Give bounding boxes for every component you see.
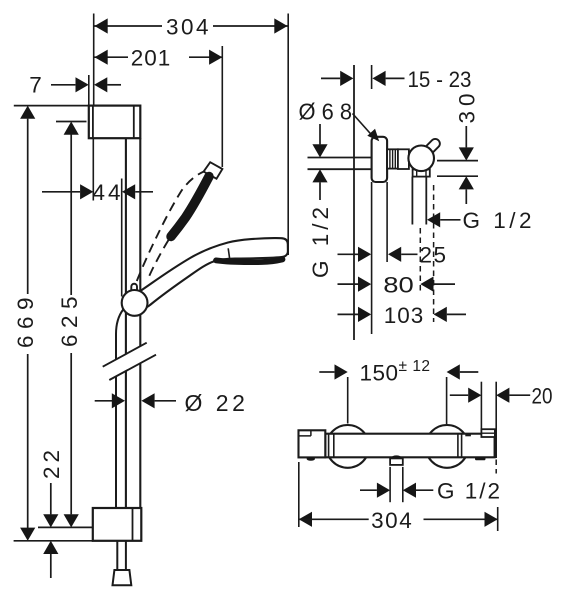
hand shower select button tick <box>228 248 229 258</box>
dimension 201 <box>95 56 223 58</box>
dimension 304 (top) <box>95 25 288 27</box>
escutcheon back extension line <box>386 182 388 262</box>
dimension 625 <box>56 121 87 123</box>
wall reference line <box>353 65 355 340</box>
dimension 15-23 <box>321 77 340 79</box>
svg-text:Ø 22: Ø 22 <box>185 390 249 416</box>
small tick detail <box>465 434 471 436</box>
hand shower phantom upper dashed edge <box>137 172 204 281</box>
break mark diagonal 1 <box>103 343 147 367</box>
svg-text:669: 669 <box>13 291 38 348</box>
svg-text:G 1/2: G 1/2 <box>437 479 502 504</box>
hand shower phantom lower dashed edge <box>147 240 168 281</box>
slide bar left edge <box>125 138 127 508</box>
hand shower solid body <box>137 238 288 308</box>
svg-text:80: 80 <box>383 273 414 298</box>
svg-text:30: 30 <box>454 88 479 123</box>
dimension G1/2 (right, hose outlet) <box>427 212 440 227</box>
slide bar right edge <box>139 138 141 508</box>
hose nipple <box>412 177 426 225</box>
valve body block <box>398 149 409 169</box>
slider knob <box>122 290 148 316</box>
hose below bracket left edge <box>116 541 118 570</box>
svg-text:22: 22 <box>39 446 64 479</box>
extension line left of 304/201 <box>93 14 95 105</box>
left union cap <box>299 430 326 457</box>
break mark diagonal 2 <box>109 355 156 380</box>
dimension 304 (bottom) <box>298 462 300 527</box>
hex nut flats <box>417 169 426 176</box>
left screw blob <box>307 457 315 461</box>
extension line right of 304 <box>287 14 289 256</box>
dashed centre line (80) <box>419 228 421 292</box>
knurled section <box>387 149 398 168</box>
outlet collar blob <box>392 455 402 459</box>
svg-text:G 1/2: G 1/2 <box>308 203 333 278</box>
holder ball <box>408 146 434 172</box>
svg-text:20: 20 <box>532 384 553 409</box>
svg-text:G 1/2: G 1/2 <box>463 208 536 233</box>
supply pipe bottom line <box>308 168 372 170</box>
escutcheon (side view) <box>372 137 388 182</box>
outlet hex nut <box>413 169 430 176</box>
dimension 44 <box>42 191 80 193</box>
escutcheon face extension line (bottom) <box>371 182 373 334</box>
dimension 25 <box>338 253 359 255</box>
hand shower phantom spray face (dark band) <box>171 177 209 237</box>
left cap step detail <box>299 430 311 436</box>
right step blob <box>475 457 486 460</box>
svg-text:7: 7 <box>29 73 42 98</box>
bottom bracket <box>93 508 142 541</box>
svg-text:625: 625 <box>57 290 82 347</box>
outlet nut <box>390 458 403 465</box>
hose below bracket right edge <box>125 541 127 570</box>
svg-text:103: 103 <box>384 303 425 328</box>
svg-text:44: 44 <box>92 180 123 205</box>
dimension G1/2 (outlet) <box>389 467 391 502</box>
knurl ribs <box>390 149 395 168</box>
svg-text:304: 304 <box>166 15 211 40</box>
dimension 20 <box>480 382 482 429</box>
bottom bracket inner line <box>132 508 134 541</box>
dimension 669 <box>14 105 89 107</box>
hand shower spray face (dark band) <box>216 259 283 262</box>
dimension 30 <box>437 160 478 162</box>
escutcheon face extension line (top) <box>371 65 373 89</box>
extension line bracket left edge (7 dim) <box>88 75 90 105</box>
right joint lines <box>458 434 462 458</box>
supply pipe top line <box>308 157 372 159</box>
dimension 150 +/-12 <box>347 377 349 424</box>
extension line right of 201 <box>221 46 223 167</box>
svg-text:150: 150 <box>360 360 399 385</box>
right handle circle <box>426 425 469 468</box>
dimension G1/2 pipe (vertical arrows) <box>319 124 321 144</box>
slider knob nub <box>131 284 137 293</box>
left handle circle <box>326 425 369 468</box>
hand shower phantom head end cap <box>204 162 223 179</box>
dashed centre line (103) <box>433 185 435 322</box>
svg-text:Ø 6 8: Ø 6 8 <box>299 99 353 125</box>
svg-text:304: 304 <box>371 508 413 533</box>
left joint lines <box>329 434 334 458</box>
right raised block inner line <box>481 432 495 434</box>
extension line 44 right / handle end <box>121 179 123 297</box>
svg-text:201: 201 <box>131 46 172 71</box>
wall bracket inner right line <box>133 106 135 139</box>
hose end cone <box>113 570 132 585</box>
holder stub <box>424 137 442 155</box>
svg-text:15 - 23: 15 - 23 <box>408 67 472 92</box>
svg-text:25: 25 <box>420 243 448 268</box>
mixer body <box>325 434 494 458</box>
svg-text:± 12: ± 12 <box>399 358 431 375</box>
extension line 44 left (below bracket) <box>92 138 94 200</box>
shower hose upper run <box>116 310 123 509</box>
wall bracket inner left line <box>92 106 94 139</box>
dimension diameter 22 (bar) <box>95 400 112 402</box>
dimension 80 <box>338 283 359 285</box>
wall bracket (top) <box>89 106 141 139</box>
dimension 103 <box>338 313 359 315</box>
right raised block <box>481 429 495 437</box>
